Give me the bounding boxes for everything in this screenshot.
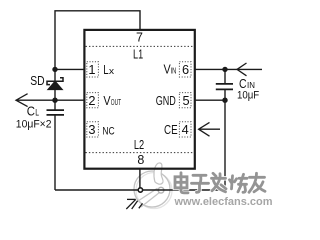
pin 6 box [179, 62, 191, 77]
svg-text:OUT: OUT [111, 98, 121, 107]
inductor L1 top dotted separator [86, 45, 194, 47]
wire bottom rail [55, 189, 225, 191]
wire pin8 stub [139, 169, 141, 190]
svg-text:4: 4 [182, 122, 189, 137]
wire VIN input with arrow [225, 63, 262, 76]
svg-text:x: x [109, 66, 114, 77]
wire right rail [224, 89, 226, 190]
wire pin2 VOUT with output arrow [16, 94, 85, 107]
pin 1 box [87, 62, 99, 77]
wire CE input with arrow [199, 122, 220, 136]
watermark small circle [158, 187, 164, 193]
wire pin1 Lx [55, 68, 85, 70]
IC U1 step-down DC/DC converter body [84, 30, 194, 169]
svg-text:NC: NC [102, 126, 114, 138]
svg-text:1: 1 [88, 62, 95, 77]
node VOUT junction [52, 98, 57, 103]
svg-text:L1: L1 [133, 47, 143, 61]
watermark fist [154, 163, 163, 184]
svg-text:L2: L2 [134, 138, 144, 152]
svg-text:8: 8 [137, 153, 144, 167]
node pin8 ground terminal circle [138, 188, 142, 192]
wire pin5 GND [194, 99, 225, 101]
svg-text:5: 5 [182, 93, 189, 108]
watermark arm [137, 188, 162, 207]
svg-text:10μF×2: 10μF×2 [16, 118, 52, 130]
svg-text:6: 6 [182, 62, 189, 77]
svg-text:SD: SD [30, 74, 44, 88]
node VIN junction [222, 67, 227, 72]
pin 4 box [179, 122, 191, 137]
watermark text 电子发烧友 (approximated strokes) [175, 173, 265, 193]
svg-text:C: C [27, 104, 35, 119]
pin 2 box [87, 93, 99, 108]
inductor L2 bottom dotted separator [86, 152, 194, 154]
diode SD [47, 69, 63, 100]
svg-text:IN: IN [171, 67, 177, 76]
svg-text:V: V [103, 93, 110, 108]
svg-text:L: L [35, 108, 39, 118]
node GND junction [222, 98, 227, 103]
node Lx junction [52, 67, 57, 72]
watermark logo circle [134, 171, 172, 209]
svg-text:CE: CE [164, 122, 178, 137]
svg-text:2: 2 [88, 93, 95, 108]
svg-text:www.elecfans.com: www.elecfans.com [174, 196, 273, 208]
svg-text:10μF: 10μF [237, 89, 259, 101]
ground symbol [126, 199, 142, 209]
svg-text:7: 7 [136, 31, 143, 45]
capacitor CL [47, 100, 65, 190]
svg-text:3: 3 [88, 122, 95, 137]
svg-text:L: L [103, 62, 108, 77]
pin 3 box [87, 122, 99, 137]
svg-text:GND: GND [156, 93, 176, 108]
capacitor CIN [216, 69, 233, 89]
pin 5 box [179, 93, 191, 108]
wire top loop pin7 to Lx node [55, 11, 140, 70]
wire pin6 VIN [194, 68, 225, 70]
